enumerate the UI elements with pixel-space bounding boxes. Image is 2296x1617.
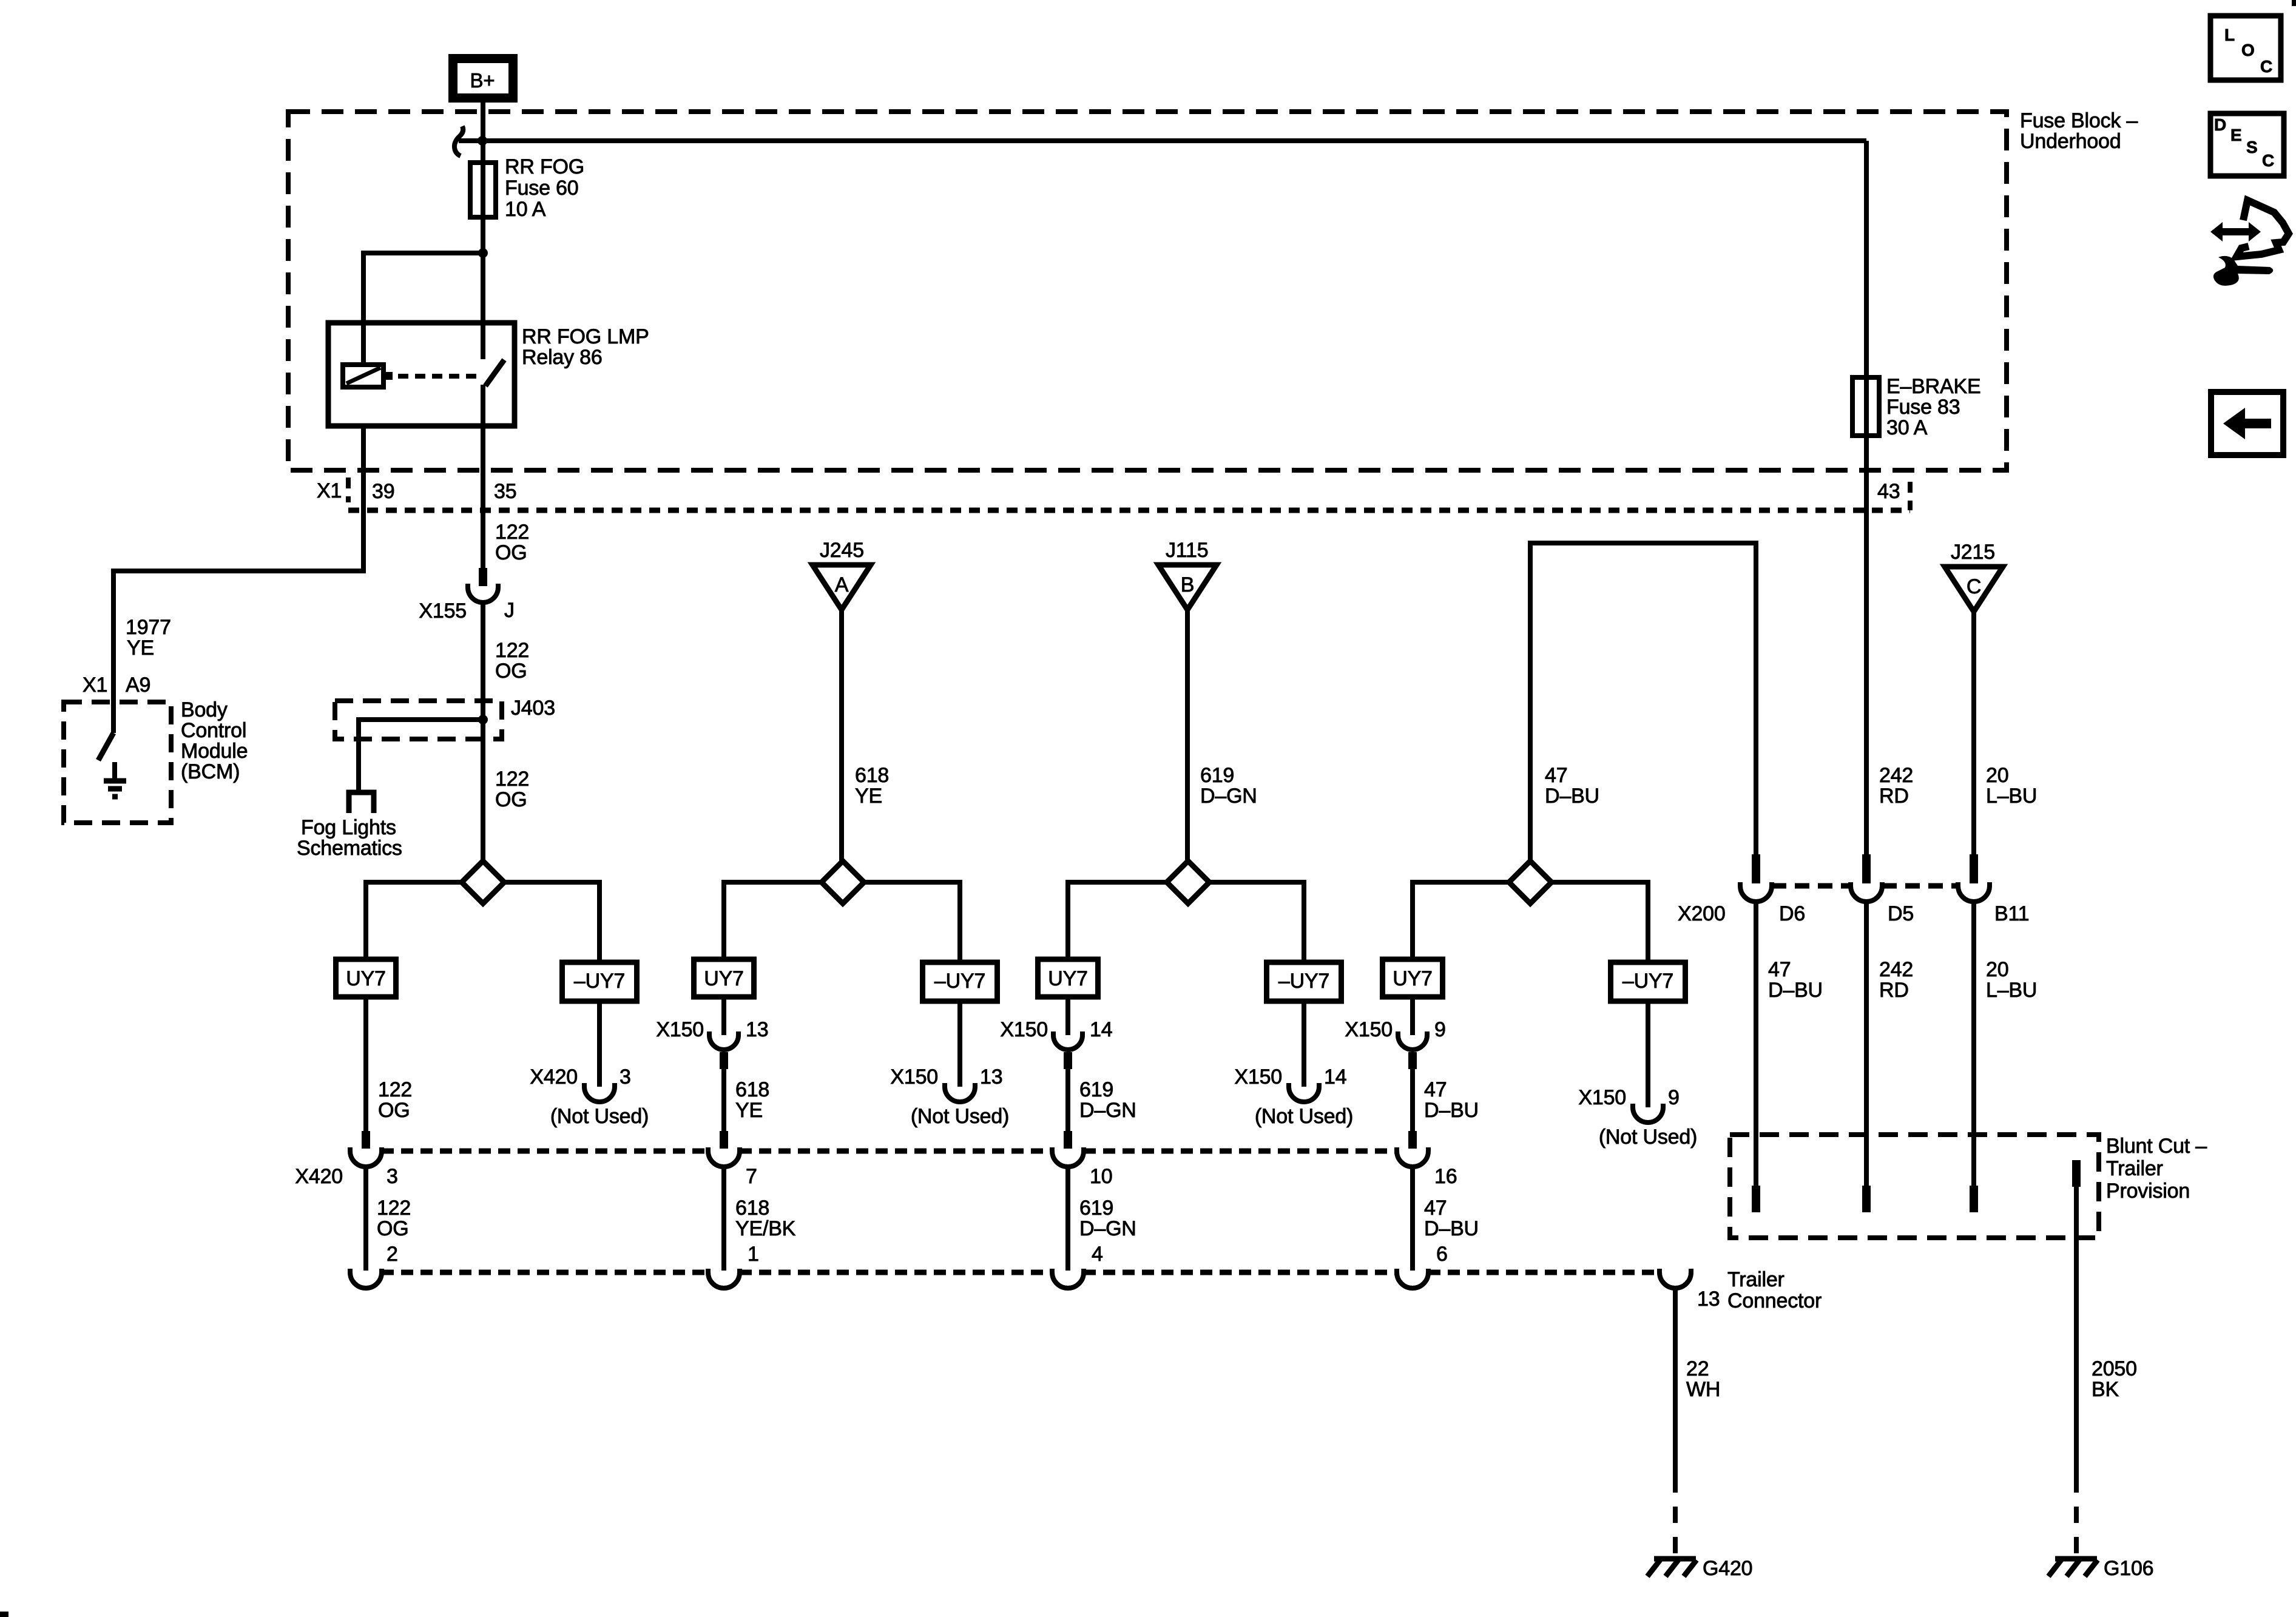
label wire 1977 YE	[126, 616, 171, 660]
wire bus down to E-BRAKE fuse	[1864, 141, 1869, 377]
svg-text:–UY7: –UY7	[574, 970, 625, 993]
wire B+ to bus	[481, 102, 485, 163]
label X420 pin 3	[295, 1165, 397, 1188]
svg-text:YE: YE	[855, 785, 882, 808]
svg-text:L: L	[2224, 25, 2235, 44]
svg-text:(Not Used): (Not Used)	[911, 1105, 1009, 1128]
wire 47 D–BU X420 to trailer row	[1410, 1166, 1415, 1271]
wire 122 OG X420 to trailer row	[363, 1166, 368, 1271]
svg-text:9: 9	[1434, 1018, 1446, 1041]
svg-text:D–BU: D–BU	[1424, 1099, 1479, 1122]
connector X150 pin 13 (not used) cup	[890, 1065, 1002, 1102]
svg-text:242: 242	[1879, 958, 1913, 981]
svg-text:B11: B11	[1994, 902, 2029, 925]
svg-text:(BCM): (BCM)	[181, 760, 240, 783]
svg-text:20: 20	[1986, 764, 2008, 787]
connector row X1 dotted line	[348, 508, 1910, 513]
splice 2 left branch wire	[724, 882, 822, 959]
wire 47 D-BU to blunt cut	[1754, 902, 1758, 1186]
wire UY7 to X150 at x=1760	[1065, 997, 1070, 1035]
svg-text:X150: X150	[890, 1065, 938, 1089]
svg-text:242: 242	[1879, 764, 1913, 787]
relay coil-to-contact dashed link	[383, 372, 481, 380]
relay switch contact	[483, 253, 504, 426]
BCM internal switch	[98, 733, 113, 760]
label J403	[511, 697, 555, 720]
wire 618 YE J245 to splice	[839, 610, 844, 861]
option box -UY7 group 3	[1267, 962, 1342, 1001]
junction fuse/relay-coil branch	[478, 248, 488, 258]
splice 2 right branch wire	[864, 882, 960, 962]
label (Not Used) at x=2149	[1255, 1105, 1353, 1128]
svg-text:Relay 86: Relay 86	[522, 346, 603, 369]
label 122 OG (UY7 to X420)	[378, 1078, 412, 1122]
wire -UY7 to X150 14 not used	[1302, 1001, 1306, 1087]
label trailer pin 1	[748, 1243, 759, 1266]
pin 35 label	[494, 480, 516, 503]
svg-text:22: 22	[1686, 1357, 1709, 1380]
splice 1 diamond	[462, 861, 504, 903]
blunt cut trailer provision dashed box	[1730, 1135, 2099, 1238]
svg-text:X1: X1	[317, 479, 342, 502]
wire 242 RD	[1864, 436, 1869, 857]
svg-text:619: 619	[1200, 764, 1234, 787]
connector X420 pin 3 (not used) cup	[530, 1065, 630, 1102]
connector X1 right bracket	[1908, 482, 1913, 510]
svg-text:13: 13	[980, 1065, 1002, 1089]
svg-text:–UY7: –UY7	[1622, 970, 1673, 993]
label (Not Used) at x=988	[550, 1105, 649, 1128]
svg-text:122: 122	[377, 1197, 411, 1220]
option box UY7 group 4	[1383, 959, 1443, 997]
svg-text:D–BU: D–BU	[1768, 979, 1823, 1002]
svg-text:X150: X150	[1234, 1065, 1282, 1089]
svg-text:Fog Lights: Fog Lights	[301, 816, 396, 839]
connector J215 triangle C	[1945, 541, 2003, 612]
svg-text:X420: X420	[295, 1165, 343, 1188]
svg-text:BK: BK	[2092, 1378, 2119, 1401]
junction bus/B+	[478, 136, 487, 146]
wire 618 YE X150 to X420	[721, 1069, 726, 1132]
trailer connector pin 13 cup	[1660, 1269, 1691, 1288]
wire bus to E-BRAKE fuse	[459, 138, 1866, 143]
svg-text:J: J	[504, 599, 515, 622]
svg-text:D–BU: D–BU	[1424, 1217, 1479, 1240]
svg-text:6: 6	[1436, 1243, 1448, 1266]
label trailer pin 2	[387, 1243, 398, 1266]
label 618 YE/BK	[735, 1197, 796, 1240]
splice 4 diamond	[1509, 861, 1551, 903]
label 618 YE	[735, 1078, 769, 1122]
trailer connector pin 4 cup	[1052, 1269, 1084, 1288]
svg-text:Underhood: Underhood	[2020, 130, 2121, 153]
label E-BRAKE Fuse 83 30 A	[1886, 375, 1980, 439]
svg-text:X420: X420	[530, 1065, 578, 1089]
svg-text:Schematics: Schematics	[297, 837, 402, 860]
label 122 OG (above X155)	[495, 521, 529, 564]
svg-text:A9: A9	[126, 673, 150, 697]
label 619 D-GN	[1200, 764, 1257, 808]
icon back-arrow box	[2211, 392, 2283, 455]
connector X200 pin D5	[1851, 854, 1882, 902]
connector J115 triangle B	[1158, 539, 1217, 610]
svg-text:1977: 1977	[126, 616, 171, 639]
svg-text:E–BRAKE: E–BRAKE	[1886, 375, 1980, 398]
wire 122 OG UY7 to X420	[363, 997, 368, 1132]
battery feed B+ terminal	[453, 59, 513, 98]
svg-text:35: 35	[494, 480, 516, 503]
svg-text:–UY7: –UY7	[1278, 970, 1329, 993]
page corner dot top-right	[2292, 0, 2296, 6]
blunt cut terminal 47 D-BU	[1752, 1186, 1760, 1212]
svg-text:UY7: UY7	[1048, 967, 1088, 990]
label X1 A9 pins	[83, 673, 150, 697]
svg-text:1: 1	[748, 1243, 759, 1266]
svg-text:X150: X150	[656, 1018, 704, 1041]
svg-text:43: 43	[1877, 480, 1900, 503]
label trailer pin 4	[1092, 1243, 1103, 1266]
label RR FOG Fuse 60 10 A	[505, 155, 584, 221]
svg-text:4: 4	[1092, 1243, 1103, 1266]
option box -UY7 group 4	[1611, 962, 1686, 1001]
wire 242 RD to blunt cut	[1864, 902, 1869, 1186]
svg-text:UY7: UY7	[704, 967, 744, 990]
splice 4 right branch wire	[1551, 882, 1648, 962]
wire 1977 YE relay to BCM	[113, 426, 363, 733]
svg-text:47: 47	[1768, 958, 1791, 981]
wire 20 L-BU J215 to X200	[1971, 612, 1976, 857]
svg-text:122: 122	[378, 1078, 412, 1101]
svg-text:X150: X150	[1578, 1086, 1626, 1109]
wire 619 D–GN X150 to X420	[1065, 1069, 1070, 1132]
connector X150 pin 14 inline	[1000, 1018, 1112, 1069]
svg-text:D5: D5	[1888, 902, 1914, 925]
svg-text:L–BU: L–BU	[1986, 785, 2037, 808]
label 20 L-BU (below X200)	[1986, 958, 2037, 1002]
page corner dot bottom-left	[0, 1612, 8, 1617]
svg-text:YE/BK: YE/BK	[735, 1217, 796, 1240]
svg-text:RR FOG LMP: RR FOG LMP	[522, 325, 649, 348]
connector X420 pin 7 inline	[708, 1131, 740, 1167]
svg-text:B+: B+	[470, 69, 495, 92]
label 242 RD (above X200)	[1879, 764, 1913, 808]
icon LOC box	[2210, 16, 2281, 80]
svg-text:619: 619	[1079, 1197, 1113, 1220]
relay coil	[343, 365, 383, 387]
svg-text:Provision: Provision	[2106, 1180, 2190, 1203]
labels X200 D6 D5 B11	[1678, 902, 2029, 925]
svg-text:Fuse 60: Fuse 60	[505, 177, 578, 200]
svg-text:RD: RD	[1879, 785, 1909, 808]
option box -UY7 group 1	[562, 962, 637, 1001]
option box -UY7 group 2	[923, 962, 998, 1001]
svg-text:39: 39	[372, 480, 394, 503]
wire -UY7 to X420 3 not used	[597, 1001, 602, 1087]
svg-text:122: 122	[495, 768, 529, 791]
svg-text:9: 9	[1668, 1086, 1680, 1109]
connector X200 pin B11	[1958, 854, 1990, 902]
wire 2050 BK blunt cut to G106	[2074, 1187, 2079, 1556]
option box UY7 group 1	[336, 959, 396, 997]
label G420	[1703, 1557, 1752, 1580]
option box UY7 group 3	[1038, 959, 1098, 997]
bus take-off hook symbol	[454, 126, 463, 156]
splice 2 diamond	[822, 861, 864, 903]
svg-text:619: 619	[1079, 1078, 1113, 1101]
svg-text:13: 13	[746, 1018, 768, 1041]
label 47 D-BU (below X200)	[1768, 958, 1823, 1002]
BCM internal ground	[104, 762, 126, 797]
svg-text:D: D	[2214, 115, 2226, 134]
connector X150 pin 9 inline	[1345, 1018, 1445, 1069]
icon DESC box	[2210, 113, 2284, 176]
svg-text:Fuse Block –: Fuse Block –	[2020, 109, 2138, 132]
svg-text:A: A	[835, 573, 849, 596]
svg-text:2050: 2050	[2092, 1357, 2137, 1380]
svg-text:47: 47	[1424, 1197, 1447, 1220]
label X420 pin 10	[1090, 1165, 1112, 1188]
splice 4 left branch wire	[1413, 882, 1509, 959]
wire -UY7 to X150 9 not used	[1646, 1001, 1650, 1107]
svg-text:3: 3	[387, 1165, 398, 1188]
label Blunt Cut - Trailer Provision	[2106, 1135, 2207, 1203]
svg-text:618: 618	[735, 1078, 769, 1101]
svg-text:122: 122	[495, 521, 529, 544]
trailer connector pin 2 cup	[350, 1269, 382, 1288]
wire 47 D–BU X150 to X420	[1410, 1069, 1415, 1132]
label 122 OG (to trailer)	[377, 1197, 411, 1240]
blunt cut terminal 2050 BK	[2072, 1160, 2081, 1187]
svg-text:14: 14	[1090, 1018, 1112, 1041]
svg-text:OG: OG	[495, 660, 527, 683]
wire 20 L-BU to blunt cut	[1971, 902, 1976, 1186]
svg-text:WH: WH	[1686, 1378, 1720, 1401]
wire J403 branch to fog lights	[359, 720, 483, 792]
splice 3 left branch wire	[1068, 882, 1167, 959]
blunt cut terminal 242 RD	[1862, 1186, 1871, 1212]
svg-text:OG: OG	[495, 541, 527, 564]
svg-text:Fuse 83: Fuse 83	[1886, 396, 1960, 419]
svg-text:S: S	[2246, 138, 2257, 157]
ground G420 symbol	[1647, 1559, 1697, 1576]
connector J245 triangle A	[812, 539, 871, 610]
label 47 D–BU	[1424, 1197, 1479, 1240]
label trailer pin 6	[1436, 1243, 1448, 1266]
label 122 OG (below J403)	[495, 768, 529, 811]
svg-text:618: 618	[855, 764, 889, 787]
svg-text:X150: X150	[1345, 1018, 1393, 1041]
svg-text:E: E	[2230, 126, 2241, 144]
svg-text:B: B	[1181, 573, 1194, 596]
svg-text:20: 20	[1986, 958, 2008, 981]
wire 619 D–GN X420 to trailer row	[1065, 1166, 1070, 1271]
svg-text:2: 2	[387, 1243, 398, 1266]
label 47 D-BU (above X200)	[1545, 764, 1599, 808]
svg-text:O: O	[2241, 41, 2255, 59]
connector X150 pin 13 inline	[656, 1018, 768, 1069]
svg-text:C: C	[1967, 575, 1981, 598]
label Fuse Block - Underhood	[2020, 109, 2138, 153]
label G106	[2104, 1557, 2153, 1580]
svg-text:Blunt Cut –: Blunt Cut –	[2106, 1135, 2207, 1158]
label 13 Trailer Connector	[1697, 1268, 1822, 1312]
wire 618 YE/BK X420 to trailer row	[721, 1166, 726, 1271]
label (Not Used) at x=1582	[911, 1105, 1009, 1128]
svg-text:Body: Body	[181, 698, 228, 721]
connector X420 pin 3 inline	[350, 1131, 382, 1167]
svg-text:7: 7	[746, 1165, 757, 1188]
wire 22 WH trailer to G420	[1673, 1288, 1678, 1556]
label 619 D–GN	[1079, 1197, 1136, 1240]
ground G106 symbol	[2048, 1559, 2098, 1576]
svg-text:122: 122	[495, 639, 529, 662]
label Fog Lights Schematics	[297, 816, 402, 860]
off-page bracket fog lights	[349, 792, 374, 813]
svg-text:Control: Control	[181, 719, 246, 742]
connector X420 pin 16 inline	[1397, 1131, 1428, 1167]
svg-text:14: 14	[1324, 1065, 1346, 1089]
svg-text:618: 618	[735, 1197, 769, 1220]
svg-text:47: 47	[1424, 1078, 1447, 1101]
svg-text:10 A: 10 A	[505, 198, 546, 221]
label 122 OG (below X155)	[495, 639, 529, 683]
svg-text:OG: OG	[495, 788, 527, 811]
svg-text:C: C	[2260, 57, 2272, 76]
svg-text:YE: YE	[127, 636, 154, 660]
splice 3 diamond	[1167, 861, 1209, 903]
wire 122 OG fuseblock to X155	[481, 426, 485, 568]
body control module dashed box	[64, 702, 171, 823]
svg-text:D–BU: D–BU	[1545, 785, 1599, 808]
trailer connector row dashed line	[382, 1270, 1660, 1275]
splice 1 right branch wire	[504, 882, 599, 962]
svg-text:YE: YE	[735, 1099, 763, 1122]
svg-text:J215: J215	[1951, 541, 1995, 564]
svg-text:RD: RD	[1879, 979, 1909, 1002]
wire UY7 to X150 at x=1193	[721, 997, 726, 1035]
svg-text:OG: OG	[378, 1099, 410, 1122]
trailer connector pin 1 cup	[708, 1269, 740, 1288]
svg-text:X150: X150	[1000, 1018, 1048, 1041]
label 22 WH	[1686, 1357, 1720, 1401]
connector X150 pin 14 (not used) cup	[1234, 1065, 1346, 1102]
svg-text:D–GN: D–GN	[1200, 785, 1257, 808]
svg-text:30 A: 30 A	[1886, 416, 1928, 439]
svg-text:D–GN: D–GN	[1079, 1217, 1136, 1240]
wire 47 D-BU riser	[1530, 543, 1756, 861]
svg-text:(Not Used): (Not Used)	[1599, 1126, 1697, 1149]
svg-text:UY7: UY7	[1393, 967, 1433, 990]
svg-text:L–BU: L–BU	[1986, 979, 2037, 1002]
icon connector-repair (arrow and wrench)	[2210, 200, 2289, 286]
pin 43 label	[1877, 480, 1900, 503]
label RR FOG LMP Relay 86	[522, 325, 649, 369]
fuse E-BRAKE Fuse 83 30A element	[1852, 377, 1879, 436]
svg-text:Module: Module	[181, 740, 248, 763]
svg-text:J403: J403	[511, 697, 555, 720]
label Body Control Module (BCM)	[181, 698, 248, 783]
wire branch to relay coil	[363, 253, 483, 365]
label X420 pin 7	[746, 1165, 757, 1188]
splice 3 right branch wire	[1209, 882, 1304, 962]
label (Not Used) at x=2716	[1599, 1126, 1697, 1149]
connector X200 pin D6	[1740, 854, 1772, 902]
connector X420 row dashed line	[382, 1149, 1397, 1154]
svg-text:J245: J245	[820, 539, 864, 562]
relay RR FOG LMP box	[328, 323, 515, 426]
connector X150 pin 9 (not used) cup	[1578, 1086, 1679, 1122]
svg-text:X155: X155	[419, 599, 467, 623]
svg-text:X200: X200	[1678, 902, 1726, 925]
wire 122 OG X155 to J403	[481, 602, 485, 861]
connector X1 left bracket	[346, 478, 351, 502]
wire UY7 to X150 at x=2328	[1410, 997, 1415, 1035]
svg-text:D–GN: D–GN	[1079, 1099, 1136, 1122]
label 47 D–BU	[1424, 1078, 1479, 1122]
svg-text:10: 10	[1090, 1165, 1112, 1188]
label X1	[317, 479, 342, 502]
label 618 YE	[855, 764, 889, 808]
label X420 pin 16	[1434, 1165, 1457, 1188]
trailer connector pin 6 cup	[1397, 1269, 1428, 1288]
svg-text:G106: G106	[2104, 1557, 2153, 1580]
pin 39 label	[372, 480, 394, 503]
svg-text:16: 16	[1434, 1165, 1457, 1188]
fuse block - underhood dashed outline	[288, 112, 2007, 470]
svg-text:3: 3	[620, 1065, 631, 1089]
label 242 RD (below X200)	[1879, 958, 1913, 1002]
svg-text:(Not Used): (Not Used)	[1255, 1105, 1353, 1128]
option box UY7 group 2	[694, 959, 754, 997]
splice pack J403 dashed box	[335, 701, 502, 739]
fuse RR FOG Fuse 60 10A element	[470, 102, 496, 253]
label 619 D–GN	[1079, 1078, 1136, 1122]
svg-text:13: 13	[1697, 1288, 1720, 1311]
wire 619 D-GN J115 to splice	[1185, 610, 1190, 861]
svg-text:Trailer: Trailer	[2106, 1157, 2163, 1180]
svg-text:X1: X1	[83, 673, 107, 697]
svg-text:RR FOG: RR FOG	[505, 155, 584, 178]
svg-text:UY7: UY7	[346, 967, 386, 990]
svg-text:–UY7: –UY7	[934, 970, 985, 993]
svg-text:G420: G420	[1703, 1557, 1752, 1580]
junction dot J403	[478, 715, 488, 724]
svg-text:D6: D6	[1779, 902, 1805, 925]
svg-text:J115: J115	[1166, 539, 1208, 562]
svg-text:47: 47	[1545, 764, 1567, 787]
connector X420 pin 10 inline	[1052, 1131, 1084, 1167]
wire -UY7 to X150 13 not used	[957, 1001, 962, 1087]
inline connector X155 pin J	[419, 568, 514, 623]
connector X200 dashed links	[1772, 883, 1958, 889]
label 20 L-BU (above X200)	[1986, 764, 2037, 808]
svg-text:Connector: Connector	[1727, 1289, 1822, 1312]
svg-text:OG: OG	[377, 1217, 409, 1240]
blunt cut terminal 20 L-BU	[1970, 1186, 1978, 1212]
svg-text:C: C	[2262, 151, 2274, 170]
label 2050 BK	[2092, 1357, 2137, 1401]
svg-text:Trailer: Trailer	[1727, 1268, 1784, 1291]
splice 1 left branch wire	[366, 882, 462, 959]
svg-text:(Not Used): (Not Used)	[550, 1105, 649, 1128]
